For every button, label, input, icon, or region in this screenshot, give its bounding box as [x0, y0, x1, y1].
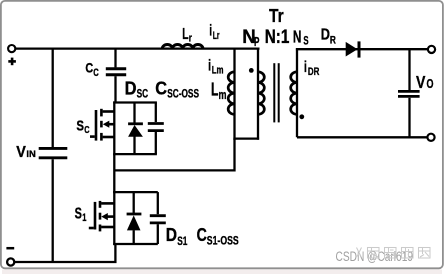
svg-text:S: S	[303, 34, 308, 48]
terminal: input +	[8, 45, 15, 52]
svg-text:C: C	[84, 124, 90, 136]
svg-text:P: P	[254, 35, 259, 49]
terminal: input -	[7, 258, 14, 265]
capacitor Csc-oss	[155, 103, 157, 123]
wire: Sc network top	[113, 101, 157, 103]
wire: primary bottom bar	[233, 137, 259, 139]
wire: output cap branch lower	[408, 98, 410, 138]
terminal: output -	[427, 134, 434, 141]
svg-text:C: C	[155, 77, 167, 98]
diode Dsc (body diode)	[133, 103, 135, 124]
wire: left rail upper	[52, 49, 54, 147]
wire: Sc network bottom	[113, 153, 157, 155]
svg-text:N:1: N:1	[265, 27, 290, 48]
capacitor Cc	[106, 69, 126, 75]
transformer secondary winding	[291, 48, 297, 137]
pale strip below border	[2, 270, 442, 274]
wire: Sc network left vertical	[113, 101, 115, 155]
svg-text:DR: DR	[308, 66, 320, 78]
wire: secondary top rail	[296, 48, 428, 50]
svg-text:O: O	[427, 76, 434, 91]
svg-text:D: D	[166, 224, 177, 245]
svg-text:r: r	[189, 33, 193, 45]
minus sign	[6, 247, 14, 250]
svg-text:C: C	[85, 61, 93, 76]
wire: secondary bottom rail	[297, 136, 428, 138]
diode DR (output rectifier)	[346, 42, 358, 57]
svg-text:R: R	[330, 35, 336, 47]
svg-text:m: m	[219, 88, 227, 102]
node dot primary	[249, 68, 254, 73]
wire: left rail lower	[52, 159, 54, 262]
svg-text:V: V	[16, 144, 26, 161]
transformer core	[274, 63, 278, 122]
watermark CJK blocks	[357, 248, 431, 259]
transistor Sc (clamp MOSFET)	[90, 109, 114, 141]
wire: switch node to transformer	[114, 169, 234, 171]
capacitor Vin (input source)	[39, 148, 68, 157]
svg-text:1: 1	[82, 212, 86, 224]
capacitor Vo output	[398, 91, 420, 96]
inductor Lr	[162, 44, 203, 48]
svg-text:L: L	[211, 79, 218, 100]
svg-text:C: C	[197, 224, 207, 245]
svg-text:Tr: Tr	[269, 5, 284, 26]
transformer primary winding	[233, 48, 264, 140]
svg-text:Lm: Lm	[212, 65, 224, 77]
svg-text:i: i	[304, 59, 307, 76]
svg-text:S1-OSS: S1-OSS	[207, 234, 239, 248]
svg-text:SC-OSS: SC-OSS	[167, 86, 199, 100]
svg-text:D: D	[125, 77, 137, 98]
node dot secondary	[299, 114, 304, 119]
wire: S1 network top	[113, 191, 158, 193]
svg-text:SC: SC	[137, 86, 149, 100]
svg-text:D: D	[321, 27, 330, 44]
svg-text:N: N	[293, 27, 302, 47]
wire: S1 network bottom	[113, 243, 158, 245]
wire: output cap branch upper	[408, 49, 410, 90]
svg-text:IN: IN	[26, 149, 36, 160]
wire: Cc branch vertical lower	[114, 76, 116, 102]
wire: bottom rail	[14, 244, 115, 262]
wire: transformer return vertical	[233, 139, 235, 172]
wire: S1 network left vertical	[113, 191, 115, 245]
svg-text:C: C	[93, 67, 99, 79]
plus sign	[8, 58, 16, 66]
svg-text:Lr: Lr	[213, 30, 220, 42]
svg-text:S: S	[75, 206, 82, 223]
svg-text:i: i	[208, 57, 211, 74]
svg-text:i: i	[209, 23, 212, 40]
svg-text:S: S	[76, 117, 84, 134]
wire: Cc branch vertical upper	[114, 49, 116, 68]
diode Ds1 (body diode)	[133, 192, 135, 213]
inductor Lm (magnetizing)	[228, 48, 234, 140]
transistor S1 (main MOSFET)	[89, 201, 115, 232]
svg-text:V: V	[416, 72, 426, 92]
terminal: output +	[428, 46, 435, 53]
svg-text:S1: S1	[177, 234, 187, 248]
capacitor Cs1-oss	[157, 192, 159, 214]
wire: top rail from + terminal to primary top	[15, 47, 259, 49]
wire: mid vertical between Sc and S1	[113, 154, 115, 193]
